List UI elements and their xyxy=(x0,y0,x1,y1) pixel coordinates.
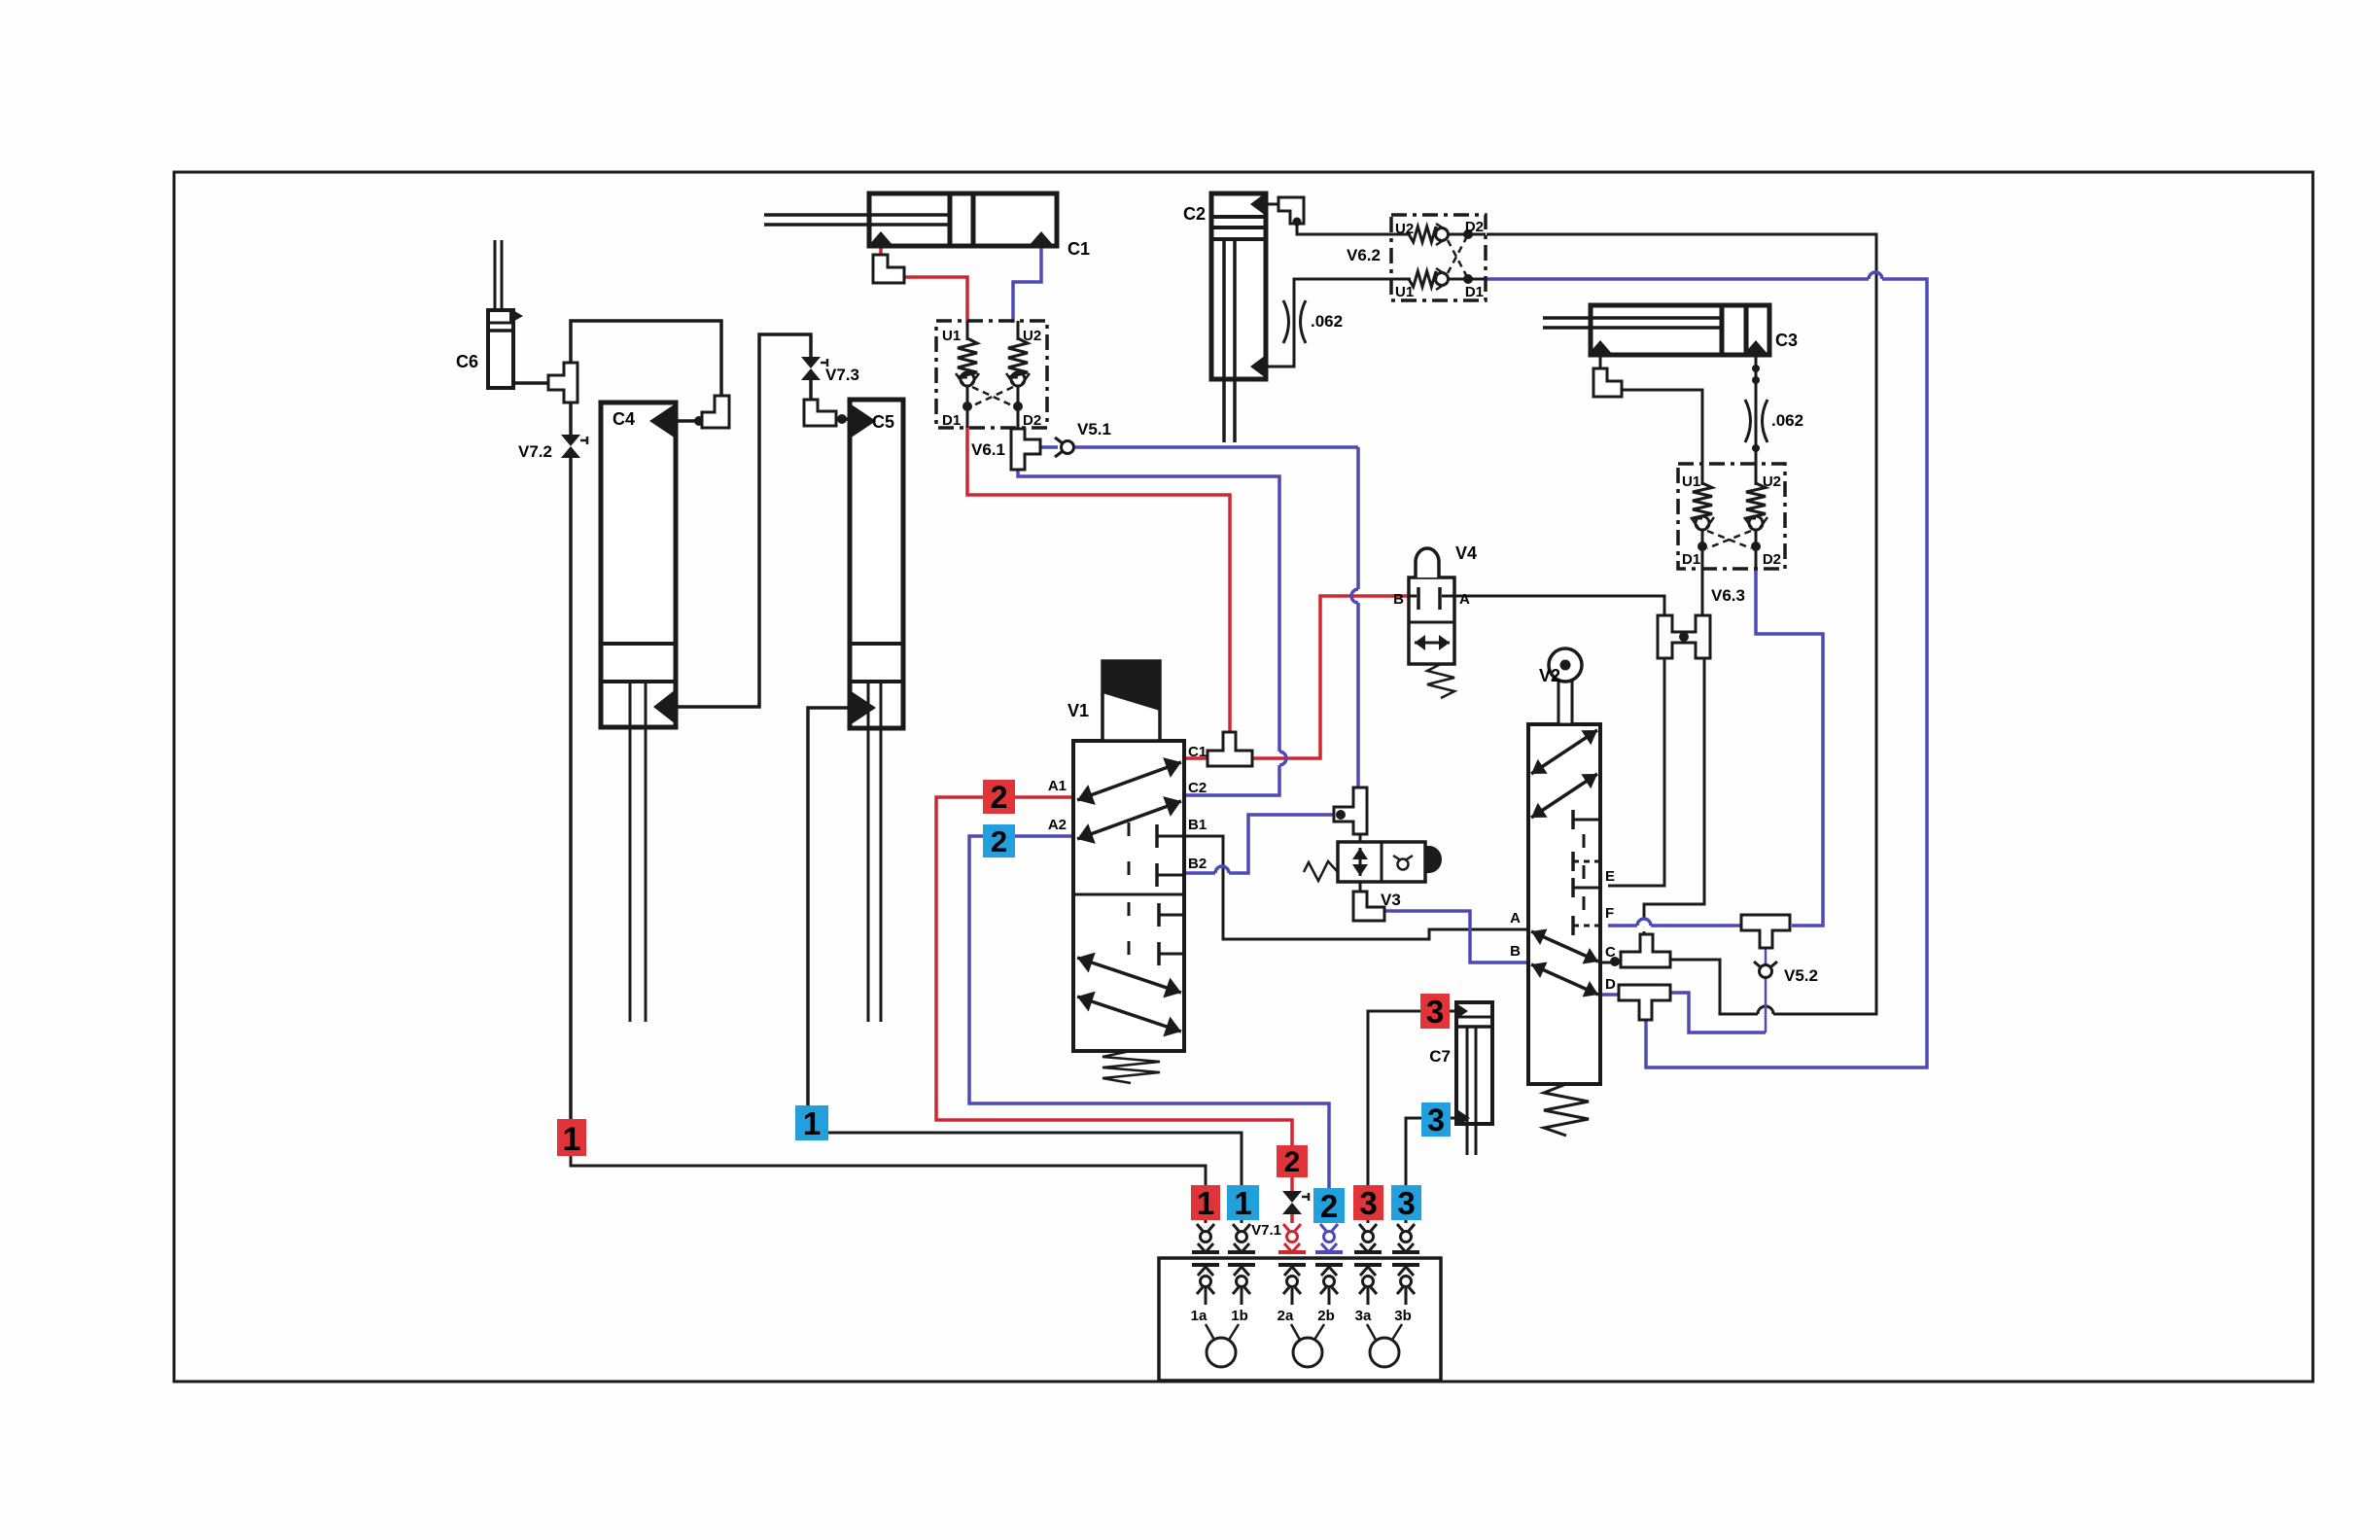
dual check valve V6.3 xyxy=(1678,464,1785,569)
wire hop: blue over red C1 line xyxy=(1279,752,1286,765)
tee fitting at V2 C xyxy=(1621,934,1670,967)
svg-text:A: A xyxy=(1459,591,1470,608)
svg-text:2a: 2a xyxy=(1277,1308,1294,1324)
svg-text:3: 3 xyxy=(1359,1185,1377,1221)
svg-text:C1: C1 xyxy=(1188,744,1207,760)
wire: blue V6.2 D1 right down left to V2 D tee xyxy=(1487,277,1869,281)
wire: black C2 bottom port through .062 orifice to V6.2 U1 xyxy=(1267,279,1391,367)
svg-text:C5: C5 xyxy=(872,412,894,432)
quick disconnect 3a xyxy=(1359,1224,1365,1231)
wire: blue D tee right side to V5.2 bottom junction xyxy=(1670,993,1766,1032)
wire: blue V6.1 D2 tee bottom right and down to V1 C2 xyxy=(1018,470,1279,752)
cylinder C1 xyxy=(869,193,1057,246)
wire: red V6.1 D1 down right down to tee at V1 C1 xyxy=(967,426,1230,737)
wire: black C4 elbow to C4 top port xyxy=(676,419,704,423)
wire: black manifold 1a tag to coupling xyxy=(1205,1219,1207,1223)
wire: black C tee right up and to V6.2 D2 trunk xyxy=(1670,960,1758,1014)
svg-text:3b: 3b xyxy=(1394,1308,1412,1324)
svg-text:B: B xyxy=(1393,591,1404,608)
cylinder C5 xyxy=(850,400,903,728)
dual check valve V6.1 xyxy=(936,321,1047,428)
wire: red below manifold tag 2 through V7.1 to 2a coupling xyxy=(1290,1177,1294,1192)
svg-text:V7.1: V7.1 xyxy=(1251,1222,1281,1239)
orifice arcs at C2 line xyxy=(1283,300,1289,343)
svg-text:C6: C6 xyxy=(456,352,478,371)
svg-text:U1: U1 xyxy=(942,328,961,344)
wire: blue A2 from V1 left through tag down right to 2b tag xyxy=(969,836,1329,1188)
tee fitting above V3 xyxy=(1334,787,1367,834)
svg-text:U2: U2 xyxy=(1763,473,1781,490)
svg-text:C: C xyxy=(1605,944,1616,961)
node tag red 2 (manifold) xyxy=(1277,1145,1308,1177)
svg-text:2: 2 xyxy=(1284,1146,1301,1178)
wire: black C3 left port to elbow to V6.3 U1 xyxy=(1599,355,1602,370)
wire: black red 3 tag into C7 top port xyxy=(1449,1010,1454,1013)
wire: black C5 elbow to C5 top port xyxy=(836,417,850,421)
wire: blue V1 B2 to T above V3 xyxy=(1184,871,1215,875)
svg-text:U2: U2 xyxy=(1023,328,1041,344)
svg-text:F: F xyxy=(1605,905,1614,922)
svg-text:1: 1 xyxy=(1197,1185,1214,1221)
needle valve V7.1 xyxy=(1282,1191,1302,1203)
manifold box xyxy=(1159,1258,1441,1381)
svg-text:2: 2 xyxy=(1320,1188,1338,1224)
V4 spring xyxy=(1427,664,1454,698)
svg-text:B2: B2 xyxy=(1188,856,1207,872)
quick disconnect 2b xyxy=(1320,1224,1326,1231)
tee fitting at V1 C1 xyxy=(1207,732,1252,766)
svg-text:D1: D1 xyxy=(1465,284,1484,300)
wire: black C2 top port to elbow to V6.2 U2 xyxy=(1267,203,1280,206)
svg-text:V6.3: V6.3 xyxy=(1711,586,1745,605)
quick disconnect 2a xyxy=(1283,1224,1289,1231)
svg-text:.062: .062 xyxy=(1771,411,1803,430)
svg-text:B1: B1 xyxy=(1188,817,1207,833)
node tag blue 1 (left) xyxy=(795,1105,828,1140)
wire: black C4 bottom port right up right through V7.3 to C5 elbow xyxy=(676,334,811,707)
elbow fitting at C2 top port xyxy=(1278,197,1304,224)
valve V1 (lever operated) xyxy=(1073,741,1184,1051)
needle valve V7.2 xyxy=(561,435,580,446)
V4 mushroom button xyxy=(1416,548,1439,577)
svg-text:C1: C1 xyxy=(1067,239,1090,259)
svg-text:B: B xyxy=(1510,943,1521,960)
V2 roller xyxy=(1558,681,1572,724)
wire: black blue tag 1 right down to manifold 1b xyxy=(828,1133,1242,1187)
node tag blue 3 (C7) xyxy=(1421,1102,1451,1137)
svg-text:D1: D1 xyxy=(1682,551,1700,568)
svg-text:U2: U2 xyxy=(1395,221,1414,237)
V1 bottom spring xyxy=(1102,1051,1160,1083)
H cross fitting (V4 A / V6.3 D1 / V2 E) xyxy=(1658,615,1710,658)
orifice arcs at C3 line xyxy=(1745,400,1751,442)
svg-text:3: 3 xyxy=(1397,1185,1415,1221)
wire: black manifold 3a up right to red 3 tag at C7 xyxy=(1368,1011,1420,1187)
wire: black C6 tee down through V7.2 to red tag 1 xyxy=(569,401,573,437)
wire: black V3 bottom to elbow xyxy=(1359,880,1362,893)
wire: black H fitting to V2 E xyxy=(1608,656,1664,886)
wire: black V6.3 D1 to H fitting xyxy=(1701,567,1704,617)
wire: blue V6.3 D2 down right down to V2 F xyxy=(1756,567,1823,926)
wire: black C3 right port through .062 orifice to V6.3 U2 xyxy=(1755,355,1758,466)
wire: blue V2 D to tee xyxy=(1600,993,1619,997)
svg-text:C3: C3 xyxy=(1775,331,1798,350)
wire: black T to V3 top xyxy=(1359,834,1362,844)
svg-text:3: 3 xyxy=(1426,994,1444,1030)
wire: black red tag 1 to manifold 1a xyxy=(571,1155,1206,1187)
svg-text:D2: D2 xyxy=(1763,551,1781,568)
svg-text:D2: D2 xyxy=(1023,412,1041,429)
manifold handle circles xyxy=(1207,1338,1236,1367)
quick disconnect 3b xyxy=(1397,1224,1403,1231)
wire: blue V5.1 to right then down to T above V3 xyxy=(1075,445,1358,449)
svg-text:U1: U1 xyxy=(1395,284,1414,300)
wire: red elbow to V6.1 U1 xyxy=(902,277,967,323)
node tag red 3 (C7) xyxy=(1420,994,1450,1029)
wire: blue V6.1 bottom tee to V5.1 xyxy=(1038,445,1058,449)
border frame xyxy=(174,172,2313,1382)
tee fitting at C6 xyxy=(548,363,577,402)
svg-text:1: 1 xyxy=(563,1121,581,1158)
svg-text:3: 3 xyxy=(1427,1102,1445,1137)
cylinder C7 xyxy=(1456,1002,1492,1124)
svg-text:V7.3: V7.3 xyxy=(825,366,859,384)
svg-text:3a: 3a xyxy=(1355,1308,1372,1324)
svg-text:V7.2: V7.2 xyxy=(518,442,552,461)
svg-text:E: E xyxy=(1605,868,1615,885)
wire: black C5 bottom port left down to blue tag 1 xyxy=(808,708,850,1107)
wire: red C1 left port to elbow xyxy=(879,243,883,257)
quick disconnect 1a xyxy=(1197,1224,1203,1231)
wire: blue C1 right port to V6.1 U2 xyxy=(1013,243,1041,323)
valve V4 (push button) xyxy=(1409,577,1454,664)
wire: black manifold 3b up right to blue 3 tag at C7 xyxy=(1406,1118,1422,1187)
wire: red V1 C1 port to tee xyxy=(1184,756,1210,760)
wire: black V1 B1 to V2 A xyxy=(1184,836,1528,939)
svg-text:V5.2: V5.2 xyxy=(1784,966,1818,985)
svg-text:1: 1 xyxy=(1234,1185,1251,1221)
V3 plunger dome xyxy=(1425,846,1442,873)
svg-text:A1: A1 xyxy=(1048,778,1067,794)
node tag red 1 (left) xyxy=(557,1119,586,1156)
node tag blue 2 (manifold) xyxy=(1313,1188,1345,1223)
V2 bottom spring xyxy=(1544,1084,1589,1136)
svg-text:D1: D1 xyxy=(942,412,961,429)
elbow fitting at C5 top port xyxy=(804,400,836,426)
cylinder C2 xyxy=(1211,193,1266,379)
svg-text:C7: C7 xyxy=(1429,1047,1451,1066)
valve V3 (shuttle/check) xyxy=(1338,842,1425,882)
quick disconnect 1b xyxy=(1233,1224,1239,1231)
svg-text:D: D xyxy=(1605,976,1616,993)
svg-text:1: 1 xyxy=(803,1105,821,1141)
wire: black V2 C to C tee xyxy=(1600,962,1621,964)
node tag blue 1 (manifold) xyxy=(1227,1185,1259,1220)
elbow fitting under C1 left port xyxy=(873,255,904,283)
svg-text:A: A xyxy=(1510,910,1521,927)
V1 lever flag xyxy=(1102,661,1160,741)
wire: black C6 tee up right down to C4 top elbow xyxy=(571,321,721,398)
svg-text:V6.1: V6.1 xyxy=(971,440,1005,459)
cylinder C3 xyxy=(1591,305,1769,355)
wire: black H fitting down to C tee via F crossing xyxy=(1644,656,1704,919)
svg-text:1a: 1a xyxy=(1191,1308,1207,1324)
tee fitting at V2 D xyxy=(1619,985,1670,1020)
svg-text:V3: V3 xyxy=(1381,891,1401,909)
wire: black C6 bottom port to tee xyxy=(508,381,550,385)
node tag red 2 (V1 A1) xyxy=(983,780,1015,814)
cylinder C4 xyxy=(601,402,676,727)
svg-text:C4: C4 xyxy=(612,409,635,429)
needle valve V7.3 xyxy=(801,357,821,368)
wire: black V4 A to H fitting xyxy=(1454,596,1664,617)
check valve V5.1 xyxy=(1062,441,1074,454)
wire: blue below 2b tag to coupling xyxy=(1327,1221,1331,1223)
V3 spring xyxy=(1304,861,1338,881)
svg-text:2b: 2b xyxy=(1317,1308,1335,1324)
wire: red A1 from V1 left through tag 2 down right to manifold tag xyxy=(936,797,1292,1147)
svg-text:2: 2 xyxy=(991,780,1008,815)
wire: blue V3 elbow to V2 B xyxy=(1382,911,1528,962)
check valve V5.2 xyxy=(1760,965,1772,978)
svg-text:V5.1: V5.1 xyxy=(1077,420,1111,438)
node tag blue 3 (manifold) xyxy=(1391,1185,1421,1220)
tee fitting on F line with V5.2 branch xyxy=(1741,915,1790,948)
dual check valve V6.2 xyxy=(1391,215,1486,300)
wire hop: blue over red B line xyxy=(1351,589,1358,603)
svg-text:.062: .062 xyxy=(1311,312,1343,331)
svg-text:A2: A2 xyxy=(1048,817,1067,833)
svg-text:V1: V1 xyxy=(1067,701,1089,720)
elbow fitting at C4 top port xyxy=(702,396,729,428)
cylinder C6 xyxy=(488,310,513,388)
node tag red 3 (manifold) xyxy=(1353,1185,1383,1220)
svg-text:D2: D2 xyxy=(1465,219,1484,235)
wire: red tee to junction and up to V4 B xyxy=(1249,596,1409,758)
svg-text:1b: 1b xyxy=(1231,1308,1248,1324)
node tag red 1 (manifold) xyxy=(1191,1185,1220,1220)
wire: black blue 3 tag into C7 bottom port xyxy=(1450,1117,1455,1120)
svg-text:C2: C2 xyxy=(1188,780,1207,796)
wire: blue V5.2 branch from F tee xyxy=(1765,948,1767,964)
svg-text:2: 2 xyxy=(991,824,1007,858)
svg-text:U1: U1 xyxy=(1682,473,1700,490)
tee fitting below V6.1 D2 with V5.1 branch xyxy=(1011,429,1040,470)
elbow fitting under C3 left port xyxy=(1593,368,1622,397)
svg-text:V6.2: V6.2 xyxy=(1347,246,1381,264)
node tag blue 2 (V1 A2) xyxy=(983,824,1015,857)
elbow fitting below V3 xyxy=(1353,892,1384,921)
svg-text:V2: V2 xyxy=(1539,666,1560,685)
svg-text:V4: V4 xyxy=(1455,543,1477,563)
valve V2 (roller operated) xyxy=(1528,724,1600,1084)
svg-text:C2: C2 xyxy=(1183,204,1206,224)
